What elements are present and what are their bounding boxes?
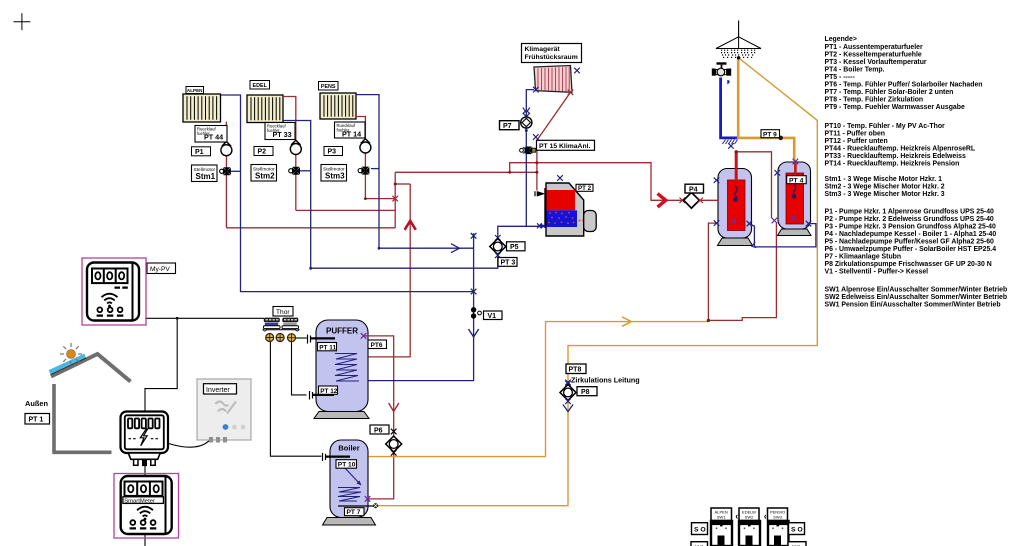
arrow navy down into Klima return xyxy=(523,108,530,113)
svg-text:P4 - Nachladepumpe Kessel - Bo: P4 - Nachladepumpe Kessel - Boiler 1 - A… xyxy=(825,231,997,238)
device SmartMeter xyxy=(121,476,172,534)
switch SW3 assembly xyxy=(765,508,789,546)
valve-motor Stm3 xyxy=(358,167,369,175)
wire black Thor gauge3 to PT12 element xyxy=(292,342,307,395)
pump P6 xyxy=(386,429,402,456)
wire red main riser xyxy=(394,172,396,228)
svg-text:P6 - Umwaelzpumpe Puffer - Sol: P6 - Umwaelzpumpe Puffer - SolarBoiler H… xyxy=(825,246,997,253)
radiator PENS xyxy=(320,93,356,119)
svg-text:P2 - Pumpe Hzkr. 2 Edelweiss G: P2 - Pumpe Hzkr. 2 Edelweiss Grundfoss U… xyxy=(825,216,994,223)
tank Puffer-Solarboiler (left) xyxy=(718,169,752,239)
arrow red bold to P4 xyxy=(658,194,666,207)
mark X floating above Kessel xyxy=(557,175,563,181)
wire navy EDEL return xyxy=(283,121,498,269)
registration cross top-left xyxy=(14,13,31,30)
wire red ALPEN collector xyxy=(226,227,395,229)
wire red right tank down to bottom xyxy=(708,223,776,321)
device inverter xyxy=(197,379,251,443)
wire black meter to inverter xyxy=(169,441,210,448)
wire red PENS radiator stub xyxy=(356,117,365,199)
valve X left tank inner bottom xyxy=(731,218,737,224)
svg-text:PT 44: PT 44 xyxy=(204,133,223,142)
svg-text:P1: P1 xyxy=(195,149,204,156)
svg-text:SmartMeter: SmartMeter xyxy=(124,498,155,504)
svg-text:PT6 - Temp. Fühler Puffer/ Sol: PT6 - Temp. Fühler Puffer/ Solarboiler N… xyxy=(825,82,983,89)
svg-text:P6: P6 xyxy=(374,427,383,434)
svg-text:S O: S O xyxy=(694,527,706,534)
house outline xyxy=(51,354,131,452)
wire red thick stub into left tank top xyxy=(735,152,738,182)
wire navy Stm3 link xyxy=(371,168,379,170)
svg-text:V1 - Stellventil - Puffer-> Ke: V1 - Stellventil - Puffer-> Kessel xyxy=(825,269,929,276)
svg-text:PT9 - Temp. Fuehler Warmwasse: PT9 - Temp. Fuehler Warmwasser Ausgabe xyxy=(825,104,965,111)
svg-text:P4: P4 xyxy=(689,186,698,193)
wire red PENS collector xyxy=(365,198,395,200)
label SO left xyxy=(692,523,708,535)
wire orange shower to right tank xyxy=(738,58,794,161)
gauge dials yellow xyxy=(266,334,296,342)
wire black Thor gauge1 to boiler element xyxy=(270,342,321,457)
label PT12 xyxy=(319,386,338,395)
wire black Thor gauge3 to PT11 element xyxy=(296,337,307,339)
label Stm1 xyxy=(192,165,218,182)
svg-text:EDEL: EDEL xyxy=(253,83,268,89)
svg-text:PT1 - Aussentemperaturfueler: PT1 - Aussentemperaturfueler xyxy=(825,44,923,51)
label Stm3 xyxy=(321,165,347,182)
boiler furnace Kessel xyxy=(545,183,596,236)
svg-text:P8 Zirkulationspumpe Frischwas: P8 Zirkulationspumpe Frischwasser GF UP … xyxy=(825,261,992,268)
sensor dot PT7 xyxy=(373,503,378,508)
label PT7 xyxy=(345,508,365,517)
svg-text:PT2 - Kesseltemperaturfuehle: PT2 - Kesseltemperaturfuehle xyxy=(825,52,922,59)
faucet xyxy=(712,62,731,84)
label PT4 xyxy=(787,176,807,185)
device AC-Thor unit 1 xyxy=(264,318,281,329)
wire red left tank bottom-left xyxy=(708,223,718,320)
svg-text:PT11 - Puffer oben: PT11 - Puffer oben xyxy=(825,131,886,138)
wire black Thor tick bar xyxy=(267,329,296,331)
wire navy V1 line to PUFFER xyxy=(368,233,473,380)
label Stm2 xyxy=(251,165,277,182)
svg-text:PT 3: PT 3 xyxy=(501,260,516,267)
hatch marks at faucet junction xyxy=(723,140,738,145)
svg-text:ALPEN: ALPEN xyxy=(187,88,203,93)
svg-text:PT33 - Ruecklauftemp. Heizkrei: PT33 - Ruecklauftemp. Heizkreis Edelweis… xyxy=(825,153,966,160)
pump P3 xyxy=(360,139,371,153)
valve-motor Stm1 xyxy=(220,167,231,175)
svg-text:PT 15 KlimaAnl.: PT 15 KlimaAnl. xyxy=(539,143,590,150)
label P6 xyxy=(370,425,389,434)
svg-text:Stm3: Stm3 xyxy=(325,172,345,181)
wire red supply jog to P4 and left tank xyxy=(510,163,718,201)
svg-text:PT 33: PT 33 xyxy=(273,130,292,139)
svg-text:Frühstücksraum: Frühstücksraum xyxy=(525,54,578,61)
svg-text:My-PV: My-PV xyxy=(150,266,170,273)
svg-text:P3: P3 xyxy=(328,149,337,156)
label P5 xyxy=(507,242,526,251)
svg-text:PT 11: PT 11 xyxy=(319,344,336,351)
label PT6 xyxy=(368,340,387,349)
label P2 xyxy=(254,147,273,156)
valve X above P8 xyxy=(565,380,571,386)
svg-text:Stm2 - 3 Wege Mischer Motor H: Stm2 - 3 Wege Mischer Motor Hzkr. 2 xyxy=(825,184,945,191)
stand of bottom Boiler xyxy=(323,518,376,526)
svg-text:PT 10: PT 10 xyxy=(338,462,356,469)
svg-text:P8: P8 xyxy=(581,389,590,396)
wire red PT9 to right tank xyxy=(736,152,771,219)
shower pole xyxy=(738,21,740,37)
wire red EDEL collector xyxy=(296,209,395,211)
svg-text:Außen: Außen xyxy=(25,399,48,408)
label P4 xyxy=(685,184,704,193)
heating element PT12 in PUFFER xyxy=(310,391,335,400)
svg-text:Stm2: Stm2 xyxy=(255,172,275,181)
label WI left xyxy=(691,542,708,546)
wire blue thick faucet supply xyxy=(721,78,737,138)
frame magenta SmartMeter xyxy=(114,474,179,539)
pump P8 xyxy=(560,381,576,404)
device My-PV meter xyxy=(87,263,139,321)
valve X at Klima radiator bottom-right xyxy=(568,90,574,96)
label PT44 xyxy=(195,126,227,143)
tank Boiler PT4 (right) xyxy=(778,162,811,229)
svg-text:S O: S O xyxy=(791,527,803,534)
svg-text:SW1: SW1 xyxy=(717,515,726,520)
svg-text:PT 7: PT 7 xyxy=(347,509,361,516)
solar panel on roof xyxy=(51,358,87,375)
svg-text:P7 - Klimaanlage Stubn: P7 - Klimaanlage Stubn xyxy=(825,254,902,261)
svg-text:P7: P7 xyxy=(503,123,512,130)
valve X right tank top-left xyxy=(775,170,781,176)
wire red supply to Kessel xyxy=(395,171,537,173)
device electricity meter xyxy=(121,412,169,467)
tank PUFFER xyxy=(316,320,368,412)
arrow orange down below P8 xyxy=(563,405,573,412)
wire orange PT10 line xyxy=(368,322,708,457)
label PT15 KlimaAnl xyxy=(537,140,595,150)
switch SW1 assembly xyxy=(711,508,732,546)
svg-text:PT4 - Boiler Temp.: PT4 - Boiler Temp. xyxy=(825,67,885,74)
wire red EDEL supply xyxy=(283,97,296,211)
tank Boiler (bottom) xyxy=(330,440,375,518)
svg-text:PT8: PT8 xyxy=(569,367,582,374)
wire red PT6 loop PUFFER to Boiler via P6 xyxy=(364,336,394,499)
svg-text:P3 - Pumpe Hzkr. 3 Pension Gru: P3 - Pumpe Hzkr. 3 Pension Grundfoss Alp… xyxy=(825,224,996,231)
svg-text:PT6: PT6 xyxy=(371,342,383,349)
svg-text:PENS: PENS xyxy=(321,84,336,90)
svg-text:PT 12: PT 12 xyxy=(320,388,337,395)
arrow blue into Kessel bottom xyxy=(537,223,547,228)
radiator EDEL xyxy=(247,95,283,123)
wire navy ALPEN return xyxy=(221,95,474,292)
wire navy PENS return xyxy=(356,95,473,249)
frame magenta My-PV xyxy=(82,258,146,325)
valve X left tank top-left xyxy=(714,177,720,183)
svg-text:Klimagerät: Klimagerät xyxy=(525,46,561,53)
svg-text:Thor: Thor xyxy=(276,309,290,316)
valve X at Klima diagonal junction xyxy=(533,134,539,140)
stand of PUFFER xyxy=(314,412,369,419)
label PT10 xyxy=(336,460,357,469)
wire navy tank bridge xyxy=(749,224,816,247)
svg-text:SW3: SW3 xyxy=(773,515,782,520)
stand of left tank xyxy=(718,238,753,246)
svg-text:PT3 - Kessel Vorlauftemperatur: PT3 - Kessel Vorlauftemperatur xyxy=(825,59,927,66)
heating element PT10 in Boiler xyxy=(323,453,351,461)
valve X right tank left port xyxy=(772,218,778,224)
svg-text:PT8 - Temp. Fühler Zirkulatio: PT8 - Temp. Fühler Zirkulation xyxy=(825,97,924,104)
arrow navy on tank bridge xyxy=(752,242,757,248)
mark X collector junction xyxy=(392,196,398,202)
svg-text:PT44 - Ruecklauftemp. Heizkrei: PT44 - Ruecklauftemp. Heizkreis Alpenros… xyxy=(825,146,976,153)
label PT8 xyxy=(566,364,586,374)
junction dots xyxy=(364,150,738,322)
svg-text:Stm1: Stm1 xyxy=(196,172,216,181)
label PT33 xyxy=(265,123,295,140)
svg-text:V1: V1 xyxy=(488,313,497,320)
svg-text:PT10 - Temp. Fühler - My PV Ac: PT10 - Temp. Fühler - My PV Ac-Thor xyxy=(825,123,946,130)
svg-text:PUFFER: PUFFER xyxy=(326,327,358,336)
arrow black into Kessel top xyxy=(535,191,545,196)
mark X floating Klima top-right xyxy=(574,68,580,74)
svg-text:PT 4: PT 4 xyxy=(789,177,804,184)
wire navy Stm1 link xyxy=(231,170,241,172)
sensor dot PT9 xyxy=(778,136,783,141)
valve V1 xyxy=(471,307,482,319)
valve X right tank bottom-right port xyxy=(806,221,812,227)
svg-text:PT 2: PT 2 xyxy=(578,185,592,192)
svg-text:P5 - Nachladepumpe Puffer/Kess: P5 - Nachladepumpe Puffer/Kessel GF Alph… xyxy=(825,239,995,246)
device AC-Thor unit 2 xyxy=(282,318,299,329)
valve X at faucet junction xyxy=(728,143,734,149)
label PT9 xyxy=(761,130,780,139)
wire navy Stm2 link xyxy=(300,170,311,172)
svg-text:P5: P5 xyxy=(510,244,519,251)
svg-text:PT7 - Temp. Fühler Solar-Boil: PT7 - Temp. Fühler Solar-Boiler 2 unten xyxy=(825,89,954,96)
wire red ALPEN supply riser xyxy=(225,122,227,228)
air-conditioner radiator Klimageraet xyxy=(534,66,572,93)
wire red thick stub into right tank top xyxy=(794,163,797,175)
pump P4 xyxy=(680,192,704,208)
wire black MyPV to Thor xyxy=(145,317,264,319)
svg-text:Boiler: Boiler xyxy=(338,444,359,453)
label My-PV xyxy=(147,263,176,274)
wire red collector riser to PUFFER xyxy=(368,184,410,357)
pump P1 xyxy=(221,142,232,156)
wire navy P5 to Kessel return xyxy=(498,226,544,238)
wire black drop to meter xyxy=(145,318,177,546)
label PT1 xyxy=(25,414,50,425)
valve X left tank bottom-right port xyxy=(747,221,753,227)
svg-text:Stm3 - 3 Wege Mischer Motor Hz: Stm3 - 3 Wege Mischer Motor Hzkr. 3 xyxy=(825,191,945,198)
shower head xyxy=(716,37,761,58)
arrow navy right on PENS return xyxy=(451,244,460,253)
valve-motor Stm2 xyxy=(289,167,300,175)
svg-text:SW2 Edelweiss Ein/Ausschalter: SW2 Edelweiss Ein/Ausschalter Sommer/Win… xyxy=(825,294,1008,301)
valve X PUFFER PT6 port xyxy=(361,333,367,339)
wire red Klima diagonal xyxy=(537,92,571,140)
wire red branch to collector riser xyxy=(395,183,410,185)
arrow orange right on PT10 line xyxy=(622,317,632,326)
label PERS xyxy=(319,82,339,91)
heating element PT11 in PUFFER xyxy=(308,335,336,344)
label PT14 xyxy=(335,122,366,138)
svg-text:Inverter: Inverter xyxy=(206,387,230,394)
label P3 xyxy=(324,147,343,156)
pump P5 xyxy=(490,235,506,258)
label P8 xyxy=(577,387,597,396)
valve X left tank left port xyxy=(714,220,720,226)
label P1 xyxy=(192,147,211,156)
valve X right tank inner bottom xyxy=(791,215,797,221)
sun xyxy=(60,343,82,365)
label ALPEN xyxy=(186,87,204,94)
svg-text:PT 9: PT 9 xyxy=(763,131,777,138)
valve X Boiler P6 port xyxy=(365,496,371,502)
svg-text:SW2: SW2 xyxy=(745,515,754,520)
pump P7 xyxy=(521,110,532,132)
wire red Kessel top drop xyxy=(536,140,538,190)
valve-motor Klima (PT15) xyxy=(520,147,536,155)
arrow navy down on V1 line xyxy=(469,329,479,337)
wire orange circulation loop xyxy=(378,58,818,506)
svg-text:SW1 Pension Ein/Ausschalter S: SW1 Pension Ein/Ausschalter Sommer/Winte… xyxy=(825,302,1001,309)
label SO right xyxy=(789,523,805,535)
label EDEL xyxy=(250,81,270,90)
svg-text:PT 14: PT 14 xyxy=(342,129,361,138)
valve X on V1 line top xyxy=(471,233,477,239)
radiator ALPEN xyxy=(183,94,221,122)
svg-text:SW1 Alpenrose Ein/Ausschalter: SW1 Alpenrose Ein/Ausschalter Sommer/Win… xyxy=(825,287,1008,294)
stand of right tank xyxy=(778,229,812,236)
svg-text:Legende>: Legende> xyxy=(825,36,857,43)
label PT11 xyxy=(318,343,337,352)
wire navy Klima return xyxy=(526,90,534,227)
valve X right tank top port xyxy=(793,159,799,165)
label PT3 xyxy=(498,258,517,267)
label PT2 xyxy=(576,184,593,192)
svg-text:Stm1 - 3 Wege Mische Motor Hzk: Stm1 - 3 Wege Mische Motor Hzkr. 1 xyxy=(825,176,943,183)
label Klimageraet xyxy=(522,44,582,63)
arrow red up on collector riser xyxy=(405,221,416,230)
svg-text:PT 1: PT 1 xyxy=(29,417,44,424)
valve X at Klima radiator bottom-left xyxy=(533,87,539,93)
switch SW2 assembly xyxy=(736,508,760,546)
svg-text:P2: P2 xyxy=(258,149,267,156)
arrow red down on PT6 loop xyxy=(389,403,399,412)
valve X on V1 line mid xyxy=(471,289,477,295)
label Thor xyxy=(273,307,293,317)
legend text block xyxy=(825,36,1008,309)
label V1 xyxy=(484,311,503,320)
label WI right xyxy=(788,542,806,546)
pump P2 xyxy=(290,140,301,154)
svg-text:PT14 - Ruecklauftemp. Heizkrei: PT14 - Ruecklauftemp. Heizkreis Pension xyxy=(825,161,960,168)
label P7 xyxy=(500,121,520,130)
svg-text:Zirkulations Leitung: Zirkulations Leitung xyxy=(571,376,640,385)
svg-text:P1 - Pumpe Hzkr. 1 Alpenrose G: P1 - Pumpe Hzkr. 1 Alpenrose Grundfoss U… xyxy=(825,209,995,216)
svg-text:PT5 - -----: PT5 - ----- xyxy=(825,74,856,81)
svg-text:PT12 - Puffer unten: PT12 - Puffer unten xyxy=(825,138,888,145)
